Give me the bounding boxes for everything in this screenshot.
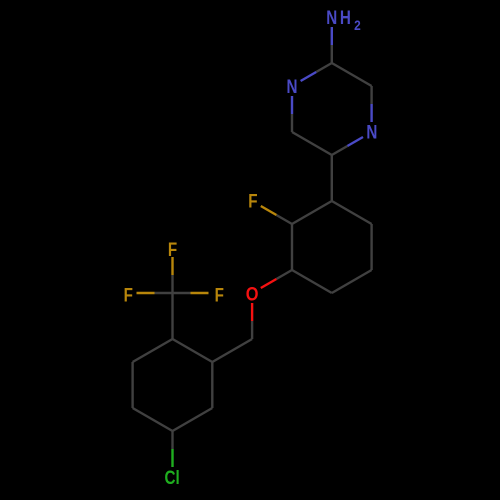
- svg-text:2: 2: [354, 17, 361, 33]
- svg-text:N: N: [366, 121, 377, 143]
- svg-text:N: N: [287, 75, 298, 97]
- svg-text:F: F: [124, 283, 134, 305]
- svg-text:N: N: [326, 6, 337, 28]
- svg-text:F: F: [168, 238, 178, 260]
- svg-text:O: O: [246, 283, 259, 305]
- svg-text:F: F: [248, 190, 258, 212]
- svg-text:F: F: [215, 283, 225, 305]
- svg-text:Cl: Cl: [165, 466, 180, 488]
- svg-text:H: H: [340, 6, 351, 28]
